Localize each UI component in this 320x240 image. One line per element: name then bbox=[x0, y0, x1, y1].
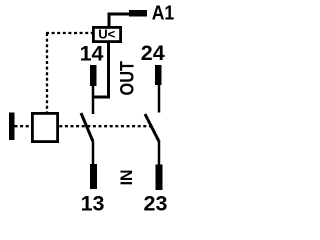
terminal A1 bbox=[129, 10, 147, 17]
pin 24 bbox=[155, 65, 162, 85]
pin 14 bbox=[90, 65, 97, 86]
dashed control line vertical bbox=[46, 33, 48, 112]
actuator pin (left terminal) bbox=[9, 113, 15, 141]
svg-text:24: 24 bbox=[141, 41, 165, 65]
contact 2 blade bbox=[145, 114, 159, 142]
contact 1 blade bbox=[81, 113, 93, 142]
wire coil bottom L to node bbox=[93, 41, 109, 97]
pin 23 bbox=[156, 165, 163, 191]
pin 13 bbox=[90, 164, 97, 189]
svg-text:U<: U< bbox=[98, 27, 115, 42]
svg-text:23: 23 bbox=[144, 192, 168, 212]
svg-text:OUT: OUT bbox=[117, 61, 138, 96]
svg-text:A1: A1 bbox=[152, 3, 175, 25]
wire pin 24 to contact bbox=[158, 85, 161, 113]
wire A1 to coil bbox=[109, 14, 129, 27]
actuator box bbox=[32, 113, 57, 141]
dashed control line horizontal to coil bbox=[46, 32, 92, 34]
relay coil U1 box U< bbox=[93, 27, 120, 41]
wire pin 14 to contact bbox=[92, 86, 95, 114]
wire contact 2 to pin 23 bbox=[158, 142, 161, 165]
svg-text:IN: IN bbox=[118, 170, 136, 186]
wire contact 1 to pin 13 bbox=[92, 142, 95, 165]
svg-text:14: 14 bbox=[80, 42, 104, 66]
svg-text:13: 13 bbox=[81, 192, 105, 212]
mechanical link dashed line bbox=[15, 125, 153, 127]
